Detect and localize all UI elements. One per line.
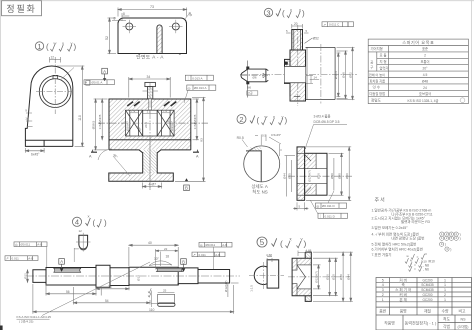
shaft dims below (46, 284, 150, 305)
svg-text:4: 4 (382, 283, 384, 287)
svg-text:↗: ↗ (323, 23, 326, 27)
svg-text:=: = (411, 259, 413, 263)
bore small dims (130, 112, 170, 114)
svg-text:5: 5 (382, 278, 384, 282)
body center lines (98, 83, 208, 190)
view5 roughness note (272, 238, 277, 246)
svg-text:품번: 품번 (379, 309, 386, 314)
svg-text:=: = (414, 267, 416, 271)
svg-text:M6: M6 (247, 86, 251, 90)
svg-text:Ø30: Ø30 (332, 274, 336, 280)
svg-text:내면 광명단 도장 (품번: 내면 광명단 도장 (품번 (391, 235, 424, 240)
view3 bore lines (285, 66, 306, 82)
body top stud (145, 82, 156, 99)
view1 small frame (86, 81, 90, 86)
svg-text:): ) (74, 43, 77, 52)
body right tolerance frame 1 (185, 75, 213, 80)
svg-text:표준: 표준 (422, 47, 428, 51)
svg-text:1.8: 1.8 (147, 110, 152, 114)
VIEW 4 : shaft (5, 214, 240, 324)
notes roughness equivalence (405, 254, 427, 271)
svg-text:22: 22 (164, 247, 168, 251)
svg-text:↗: ↗ (193, 253, 196, 257)
view3 keyway dark mark (285, 62, 288, 65)
svg-text:8: 8 (114, 17, 116, 21)
svg-text:110: 110 (78, 115, 82, 121)
title block texts (379, 277, 468, 328)
shaft tolerance frame right1 (199, 242, 232, 247)
svg-text:1: 1 (382, 298, 384, 302)
shaft overall dim (33, 284, 234, 314)
view2 part outline (297, 147, 327, 200)
view3 side view lines (306, 47, 336, 99)
svg-text:압력각: 압력각 (380, 65, 389, 70)
svg-text:): ) (302, 9, 305, 18)
view3 balloon label (264, 8, 272, 16)
svg-text:(: ( (280, 239, 283, 249)
svg-text:A: A (103, 69, 106, 74)
svg-text:(: ( (93, 219, 96, 228)
view1 right dim 110 (57, 66, 84, 146)
view1 bottom dim (25, 148, 44, 153)
svg-text:KS A ISO 6411-1 A2/4.25: KS A ISO 6411-1 A2/4.25 (17, 315, 52, 319)
svg-text:Ø48: Ø48 (341, 72, 345, 78)
svg-text:척도 NS: 척도 NS (252, 188, 267, 195)
svg-text:Ø48: Ø48 (422, 79, 428, 83)
svg-text:1: 1 (444, 288, 446, 292)
svg-text:Ø50: Ø50 (345, 173, 349, 179)
svg-text:호브절삭: 호브절삭 (419, 91, 431, 96)
svg-text:1: 1 (37, 42, 41, 51)
svg-text:4.5: 4.5 (423, 73, 428, 77)
shaft tolerance frame left2 (5, 256, 38, 261)
svg-text:14: 14 (314, 75, 318, 79)
frame extension lines (47, 247, 214, 270)
view5 right dims (313, 252, 353, 301)
VIEW 3 : spur gear (240, 7, 357, 106)
svg-text:공: 공 (370, 61, 373, 65)
svg-text:구: 구 (370, 66, 373, 70)
detail circle A (244, 146, 280, 182)
shaft top dim 40 (129, 244, 178, 266)
svg-text:Ø6: Ø6 (253, 76, 257, 80)
name box (2, 1, 42, 16)
body outer outline (109, 99, 191, 181)
svg-text:Ø0.011: Ø0.011 (206, 243, 216, 247)
base bottom dim (143, 183, 162, 189)
view2 balloon label (237, 115, 246, 124)
svg-text:2: 2 (382, 293, 384, 297)
shaft tolerance frame right2 (192, 252, 225, 257)
svg-text:커 버: 커 버 (399, 292, 407, 297)
svg-text:30°: 30° (154, 257, 160, 261)
shaft keyway right (top band) (157, 268, 183, 272)
view3 roughness note (276, 9, 281, 17)
svg-text:40: 40 (148, 241, 152, 245)
svg-text:1: 1 (444, 298, 446, 302)
svg-text:Ø44.6: Ø44.6 (334, 71, 338, 80)
svg-text:5: 5 (260, 238, 265, 247)
svg-text:R0.5: R0.5 (237, 136, 244, 140)
svg-text:Ø44: Ø44 (347, 274, 351, 280)
view2 hatch (297, 147, 316, 169)
svg-text:보통이: 보통이 (420, 59, 429, 64)
svg-text:52: 52 (105, 36, 109, 40)
base 45 chamfer note (98, 149, 112, 160)
svg-text:B: B (185, 186, 188, 191)
center hole leader note (42, 262, 150, 316)
svg-text:34: 34 (147, 75, 151, 79)
VIEW 2 : cover part (237, 114, 352, 219)
shaft keyway left (top band) (54, 268, 82, 272)
svg-text:Ø17: Ø17 (137, 275, 141, 281)
plate hole right (172, 23, 179, 30)
svg-text:KS B ISO 1328-1, 4급: KS B ISO 1328-1, 4급 (408, 99, 439, 103)
svg-text:Ø16: Ø16 (317, 173, 321, 179)
svg-text:NS: NS (461, 317, 467, 321)
svg-text:척도: 척도 (443, 316, 450, 321)
svg-text:y: y (71, 41, 73, 46)
svg-text:Ø40: Ø40 (337, 173, 341, 179)
svg-text:(: ( (282, 9, 285, 18)
svg-text:x: x (290, 7, 292, 12)
svg-text:26: 26 (108, 285, 112, 289)
view3 gear centerline (240, 25, 357, 106)
svg-text:GC200: GC200 (422, 278, 432, 282)
svg-text:Ø12(H7): Ø12(H7) (308, 170, 312, 182)
svg-text:동력전달장치( - 1 ): 동력전달장치( - 1 ) (405, 320, 437, 326)
svg-text:y: y (100, 217, 102, 222)
svg-text:작품명: 작품명 (384, 320, 395, 325)
svg-text:): ) (450, 247, 451, 251)
svg-text:피치원 지름: 피치원 지름 (370, 78, 386, 83)
svg-text:20.5: 20.5 (144, 122, 148, 128)
svg-text:0.011 C: 0.011 C (329, 23, 340, 27)
shaft 30 degree note (149, 249, 178, 270)
left bore rect (126, 110, 143, 136)
view2 part inner lines (297, 153, 327, 195)
svg-text:20°: 20° (423, 67, 429, 71)
svg-text:): ) (285, 116, 288, 125)
svg-text:수량: 수량 (442, 309, 449, 314)
svg-text:5.전체 열처리 HRC 50±2(품번: 5.전체 열처리 HRC 50±2(품번 (372, 241, 417, 246)
center cavity lines (143, 110, 158, 136)
body bottom band hatch (109, 140, 190, 150)
view2 right dims (306, 147, 351, 200)
svg-text:Ø26H7: Ø26H7 (126, 121, 130, 131)
svg-text:A-B: A-B (222, 243, 227, 247)
view5 profile top dim (267, 257, 272, 263)
svg-text:SCM435: SCM435 (421, 283, 434, 287)
svg-text:Ø44: Ø44 (282, 173, 286, 179)
svg-text:Ø12: Ø12 (24, 273, 28, 279)
svg-text:전체 이 높이: 전체 이 높이 (369, 72, 385, 77)
view5 profile centerlines (249, 262, 284, 290)
svg-text:4-Ø7: 4-Ø7 (149, 183, 157, 187)
svg-text:0.5: 0.5 (262, 134, 267, 138)
svg-text:Ø30: Ø30 (330, 173, 334, 179)
body wall hatch (109, 99, 190, 139)
svg-text:Ø12(H7): Ø12(H7) (224, 280, 228, 292)
view3 right dims (337, 47, 355, 99)
TOP PLATE VIEW (section A-A) (105, 5, 193, 61)
svg-text:x: x (62, 41, 64, 46)
svg-text:2곳: 2곳 (248, 91, 253, 95)
shaft vertical dim right-end (228, 283, 239, 297)
view1 leader (61, 68, 74, 80)
svg-text:Ø40: Ø40 (339, 274, 343, 280)
svg-text:GC200: GC200 (422, 298, 432, 302)
svg-text:( 2곳/4.25): ( 2곳/4.25) (19, 320, 33, 324)
svg-text:단면도 A - A: 단면도 A - A (136, 54, 164, 61)
view3 gear hatch (292, 30, 302, 50)
svg-text:B: B (182, 259, 185, 264)
view5 top small dims (298, 251, 305, 257)
svg-text:◎: ◎ (200, 243, 203, 247)
svg-text:6.기어치부 열처리 HRC 40±2(품번: 6.기어치부 열처리 HRC 40±2(품번 (372, 246, 423, 251)
view4 roughness note (86, 218, 91, 226)
datum flag A (102, 68, 108, 78)
plate center slot hatched (157, 25, 162, 54)
svg-text:7.9: 7.9 (163, 109, 168, 113)
view2 part centerline (288, 175, 352, 177)
body left dim 2 (101, 99, 103, 140)
svg-text:x: x (88, 214, 90, 219)
svg-text:A-B: A-B (28, 257, 33, 261)
svg-text:기어치형: 기어치형 (371, 46, 383, 51)
svg-text:커 버: 커 버 (399, 277, 407, 282)
svg-text:24: 24 (423, 86, 427, 90)
svg-text:A-B: A-B (37, 243, 42, 247)
svg-text:Ø0.011: Ø0.011 (21, 243, 31, 247)
centerlines redraw (98, 101, 208, 191)
svg-text:1: 1 (444, 283, 446, 287)
svg-text:각법: 각법 (443, 324, 450, 329)
leader from frame2 (184, 90, 188, 103)
svg-text:9: 9 (25, 109, 27, 113)
svg-text:12: 12 (79, 229, 83, 233)
svg-text:Ø58.5: Ø58.5 (92, 121, 96, 130)
svg-text:0.5x45°: 0.5x45° (271, 133, 282, 137)
view3 top dims (286, 24, 312, 43)
svg-text:⏊: ⏊ (319, 214, 323, 219)
shaft tolerance frame left1 (14, 242, 47, 247)
svg-text:4.68: 4.68 (266, 253, 272, 257)
svg-text:0.011: 0.011 (12, 257, 20, 261)
body left dim 1 (94, 99, 108, 150)
keyway cross-section detail (79, 235, 88, 249)
plate small dims 8 (112, 13, 129, 21)
svg-text:3: 3 (266, 8, 270, 17)
view2 bottom small dim (293, 202, 309, 210)
view5 section outline (292, 252, 311, 301)
section cut marks A-A (91, 151, 199, 153)
svg-text:스퍼기어 요목표: 스퍼기어 요목표 (402, 39, 434, 46)
svg-text:1=M3/DP8: 1=M3/DP8 (193, 114, 197, 129)
svg-text:1:1.5: 1:1.5 (250, 285, 254, 292)
view2 tolerance frame 1 (316, 203, 347, 208)
svg-text:6x45°: 6x45° (31, 152, 40, 156)
svg-text:8: 8 (123, 12, 125, 16)
svg-text:모 듈: 모 듈 (380, 52, 387, 57)
VIEW 1 : bracket part (25, 41, 90, 157)
svg-text:다듬질 방법: 다듬질 방법 (370, 91, 386, 96)
svg-text:Ø0.01 A: Ø0.01 A (92, 80, 103, 84)
svg-text:14: 14 (25, 117, 29, 121)
svg-text:Ø52: Ø52 (313, 37, 319, 41)
svg-text:4: 4 (75, 218, 79, 227)
svg-text:재질: 재질 (424, 309, 431, 314)
view3 detail framed note (247, 91, 258, 95)
svg-text:Ø12(H7): Ø12(H7) (314, 271, 318, 283)
view3 rim inner lines (290, 30, 300, 102)
detail content (246, 150, 261, 181)
view5 section hatch (292, 258, 311, 270)
view5 section inner cavity (292, 258, 311, 296)
view2 left dims (285, 156, 296, 197)
plate outline (118, 18, 187, 54)
view2 taper lines (305, 155, 311, 194)
svg-text:73: 73 (150, 5, 154, 9)
notes balloon circles line4 (440, 232, 459, 251)
right bore rect (157, 110, 174, 136)
plate hole left (126, 23, 133, 30)
svg-text:54: 54 (105, 299, 109, 303)
svg-text:(3각법): (3각법) (457, 324, 468, 329)
svg-text:7.9: 7.9 (131, 109, 136, 113)
view3 keyway small dims (306, 75, 320, 83)
CENTER VIEW : body housing section (84, 68, 216, 190)
svg-text:Ø35: Ø35 (287, 173, 291, 179)
svg-text:Ø0.013 A: Ø0.013 A (194, 86, 207, 90)
view2 roughness note (250, 116, 255, 124)
view1 top dim (50, 57, 61, 63)
svg-text:=: = (417, 255, 419, 259)
svg-text:GC200: GC200 (422, 293, 432, 297)
svg-text:y: y (299, 7, 301, 12)
svg-text:DCB Ø6.5 DP 3.5: DCB Ø6.5 DP 3.5 (314, 120, 340, 124)
svg-text:3: 3 (382, 288, 384, 292)
view1 bore circles (39, 76, 71, 108)
svg-text:주서: 주서 (375, 197, 386, 204)
svg-text:7.표면 거칠기: 7.표면 거칠기 (372, 252, 392, 257)
svg-text:Ø16: Ø16 (326, 274, 330, 280)
svg-text:83: 83 (199, 138, 203, 142)
view1 bore keyway notch (53, 75, 58, 78)
view5 section centerline (288, 276, 350, 278)
view1 center lines (36, 57, 75, 114)
body right dim 1 (193, 99, 199, 140)
svg-text:4.68: 4.68 (306, 249, 312, 253)
body left tolerance frame (84, 80, 115, 85)
svg-text:): ) (460, 236, 461, 240)
plate dim 73 (118, 8, 187, 17)
svg-text:56: 56 (66, 290, 70, 294)
view5 balloon label (257, 237, 267, 247)
sheet corner mark (0, 326, 3, 330)
body base hatch (109, 173, 173, 181)
datum target A on shaft (60, 268, 64, 272)
shaft outline (33, 265, 230, 287)
svg-text:y: y (282, 114, 284, 119)
svg-text:⏊: ⏊ (186, 76, 190, 81)
svg-text:0.011 D: 0.011 D (325, 214, 336, 218)
GEAR SPEC TABLE (368, 39, 468, 104)
plate base feet (139, 54, 181, 55)
svg-text:12: 12 (51, 56, 55, 60)
stud hole into body (149, 99, 152, 110)
svg-text:필렛과 라운드는 R3: 필렛과 라운드는 R3 (401, 219, 430, 224)
title block grid (376, 278, 472, 330)
svg-text:x: x (273, 114, 275, 119)
svg-text:1: 1 (444, 278, 446, 282)
svg-text:2: 2 (239, 115, 243, 124)
stud side dim ticks (143, 90, 158, 92)
svg-text:w: w (265, 114, 268, 119)
svg-text:/R10: /R10 (428, 259, 435, 263)
svg-text:18: 18 (166, 255, 170, 259)
body right dim 2 (175, 98, 206, 182)
plate R8 leader (184, 14, 190, 21)
svg-text:◎: ◎ (15, 243, 18, 247)
detail small dims (255, 135, 282, 157)
svg-text:Ø52: Ø52 (348, 72, 352, 78)
svg-text:1=M3/DP8: 1=M3/DP8 (98, 114, 102, 129)
svg-text:0.013 A: 0.013 A (192, 76, 202, 80)
cavity small dim (143, 113, 158, 115)
body stem hatch (143, 150, 157, 173)
svg-text:, N6: , N6 (423, 267, 429, 271)
view1 balloon label (35, 42, 43, 50)
svg-text:3.일반 모떼기는 0.2x45°: 3.일반 모떼기는 0.2x45° (372, 225, 409, 230)
svg-text:2: 2 (444, 293, 446, 297)
view5 side profile (D shape) (254, 260, 279, 288)
svg-text:110: 110 (149, 308, 155, 312)
body right tolerance frame 2 (187, 85, 216, 90)
datum flag B right (184, 185, 190, 191)
svg-text:w: w (54, 41, 57, 46)
gear table grid (368, 39, 468, 104)
shaft left vertical dim (27, 270, 29, 283)
view4 balloon label (72, 217, 81, 226)
svg-text:⌖: ⌖ (85, 81, 87, 85)
plate left dim 52 (108, 18, 117, 54)
shaft keyway plan detail (158, 294, 175, 303)
svg-text:(: ( (46, 43, 49, 52)
svg-text:0.011: 0.011 (199, 253, 207, 257)
svg-text:스 퍼 기 어: 스 퍼 기 어 (395, 287, 411, 292)
view2 tolerance frame 2 (318, 213, 348, 218)
svg-text:정밀도: 정밀도 (371, 98, 382, 103)
svg-text:25: 25 (163, 289, 167, 293)
svg-text:2: 2 (424, 54, 426, 58)
bearing seat dark marks (127, 102, 176, 106)
svg-text:정필화: 정필화 (6, 3, 36, 14)
svg-text:(: ( (257, 116, 260, 125)
svg-text:본 체: 본 체 (399, 297, 407, 302)
svg-text:A-B: A-B (215, 253, 220, 257)
body top dim 34 (129, 77, 170, 98)
svg-text:품명: 품명 (400, 309, 407, 314)
view1 part outline (25, 66, 72, 146)
TITLE BLOCK (376, 277, 472, 330)
gear table texts (369, 39, 465, 103)
svg-text:↗: ↗ (6, 257, 9, 261)
svg-text:3-Ø3.4 뚫음: 3-Ø3.4 뚫음 (314, 115, 331, 119)
VIEW 5 : cap (249, 237, 353, 302)
view3 bore white band (285, 66, 306, 82)
shaft centerline (26, 275, 240, 277)
